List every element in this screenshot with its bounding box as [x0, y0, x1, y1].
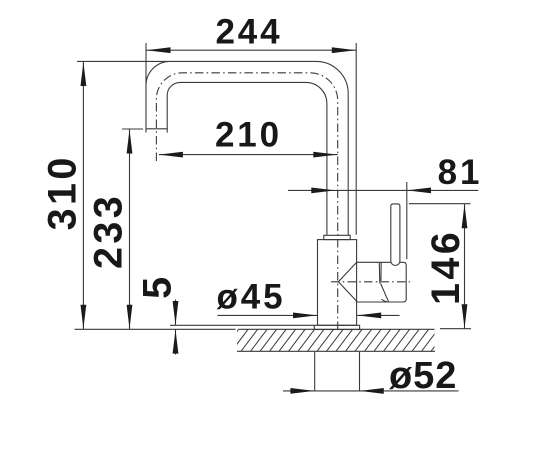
arrow 146 down	[462, 304, 468, 328]
base flange	[314, 325, 359, 329]
arrow 210 left	[159, 152, 183, 158]
dimension 146	[409, 204, 471, 329]
svg-text:310: 310	[40, 154, 84, 230]
arrow 244 left	[147, 47, 171, 53]
arrow d52 left	[290, 388, 314, 394]
joint housing	[357, 262, 407, 302]
dimension 233	[122, 129, 143, 329]
arrow 244 right	[332, 47, 356, 53]
arrow 81 toward handle axis	[407, 188, 431, 194]
arrow 5 up	[173, 330, 179, 354]
dimension 81	[288, 182, 478, 259]
dimension 5	[175, 300, 177, 355]
arrow 233 down	[127, 305, 133, 329]
arrow 5 down	[173, 301, 179, 325]
joint cone	[338, 262, 357, 302]
body column	[318, 240, 357, 326]
svg-text:146: 146	[424, 229, 468, 305]
joint cap detail	[379, 262, 388, 302]
arrow 233 up	[127, 130, 133, 154]
arrow 310 down	[81, 305, 87, 329]
svg-text:233: 233	[86, 193, 130, 269]
arrow 210 right	[313, 152, 337, 158]
dimension 210	[159, 154, 338, 156]
dimension 244	[146, 43, 356, 235]
arrow d45 left	[293, 313, 317, 319]
arrow 310 up	[81, 62, 87, 86]
arrow 146 up	[462, 204, 468, 228]
svg-text:ø45: ø45	[216, 278, 285, 317]
arrow d52 right	[360, 388, 384, 394]
collar ring	[324, 235, 350, 239]
countertop hatch	[222, 329, 448, 351]
svg-text:210: 210	[215, 116, 282, 155]
svg-text:81: 81	[438, 153, 483, 192]
svg-text:5: 5	[135, 274, 179, 299]
dimension d45	[218, 314, 400, 316]
spout tube outline	[77, 43, 348, 235]
arrow d45 right	[357, 313, 381, 319]
centerline spout (dash-dot)	[156, 73, 337, 333]
svg-text:244: 244	[215, 13, 282, 52]
svg-text:ø52: ø52	[389, 355, 457, 397]
reference line counter surface	[75, 328, 236, 330]
arrow 81 toward centerline	[311, 188, 335, 194]
dimension d52	[283, 352, 459, 391]
dimension 310	[82, 61, 84, 329]
reference line flange top	[170, 324, 314, 326]
centerline joint axis (dash-dot)	[331, 281, 410, 283]
lever handle	[391, 204, 400, 266]
spout outlet face	[146, 129, 168, 133]
